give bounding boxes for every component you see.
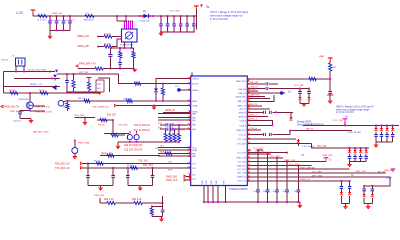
ground	[152, 105, 156, 110]
svg-text:USB_DM: USB_DM	[249, 82, 258, 84]
tvs D11	[348, 148, 352, 162]
series caps row1	[158, 123, 191, 127]
svg-text:PWR_KEY 10K: PWR_KEY 10K	[10, 111, 25, 113]
label 1v	[329, 158, 332, 161]
net label row	[30, 111, 52, 113]
capacitor C17	[86, 164, 90, 186]
svg-text:PWR_GND: PWR_GND	[94, 195, 105, 197]
junction	[162, 83, 164, 85]
svg-text:FB1 600R: FB1 600R	[84, 20, 94, 22]
resistor R7	[132, 48, 135, 69]
wire box	[98, 78, 110, 92]
svg-text:104: 104	[273, 191, 276, 193]
svg-text:PA3: PA3	[192, 124, 195, 127]
wire vdda	[163, 112, 191, 114]
junction	[29, 92, 31, 94]
svg-text:SDA1: SDA1	[192, 149, 197, 152]
wire spkn	[247, 118, 272, 125]
wire rail p1	[341, 203, 349, 205]
wire	[160, 32, 162, 33]
wire r177	[247, 174, 390, 178]
resistor R28	[63, 101, 69, 111]
power flag VIN	[31, 10, 36, 16]
net label SWD_CLK	[166, 179, 191, 182]
svg-text:NRST: NRST	[192, 101, 198, 103]
svg-text:RESET_1.8: RESET_1.8	[30, 84, 42, 86]
resistor R22	[107, 201, 116, 204]
wire	[100, 155, 160, 157]
net label VCC_RF	[317, 146, 327, 148]
diode D4 red	[283, 112, 294, 120]
svg-text:GSM_ANT: GSM_ANT	[384, 169, 395, 172]
svg-text:PWR_INT 10K: PWR_INT 10K	[35, 106, 50, 108]
wire	[329, 71, 331, 91]
wire	[112, 36, 122, 37]
diode D2	[53, 75, 57, 81]
svg-text:PWR_DET: PWR_DET	[322, 155, 333, 157]
wire	[247, 108, 270, 110]
svg-text:104: 104	[294, 191, 297, 193]
svg-text:104: 104	[283, 191, 286, 193]
ground	[374, 142, 378, 148]
wire reset	[4, 86, 61, 88]
wire cap bank bottom	[50, 30, 70, 32]
net label row	[34, 106, 50, 109]
svg-text:PB_IN: PB_IN	[98, 125, 105, 127]
svg-text:C15 104 C16 104: C15 104 C16 104	[124, 150, 143, 152]
power flag 3V3	[194, 6, 199, 16]
svg-text:RST_3V3: RST_3V3	[79, 72, 89, 74]
svg-text:PWR_KEY: PWR_KEY	[300, 167, 311, 169]
tvs D9	[385, 125, 389, 142]
wire vert q	[74, 140, 76, 148]
wire r169	[247, 167, 349, 170]
diode D3	[154, 82, 158, 100]
svg-text:BAT_ADC 100K: BAT_ADC 100K	[33, 130, 49, 133]
diode D2b	[55, 70, 58, 73]
ground	[48, 36, 52, 39]
resistor R27	[134, 82, 141, 85]
wire oscout	[14, 78, 60, 80]
svg-text:SWD_CLK: SWD_CLK	[166, 179, 178, 182]
resistor R3	[9, 90, 18, 95]
junction	[49, 15, 71, 17]
svg-text:PWR_CON: PWR_CON	[284, 160, 296, 162]
resistor R21	[107, 154, 114, 157]
capacitor C3	[62, 16, 69, 30]
capacitor bank C10	[179, 16, 183, 32]
wire up	[162, 196, 164, 203]
label X1	[1, 56, 15, 62]
tvs D8	[380, 125, 384, 142]
wire railB	[350, 161, 367, 163]
wire q legs low	[130, 141, 137, 142]
power flag	[343, 119, 348, 127]
ground	[159, 33, 163, 36]
svg-text:VSS: VSS	[216, 180, 218, 185]
wire osc loop	[3, 72, 5, 94]
wire spkp	[247, 115, 268, 118]
svg-text:VCC_EXT: VCC_EXT	[270, 156, 281, 158]
wire r165	[247, 164, 311, 167]
resistor R14	[111, 134, 125, 137]
mcu right pin numbers	[248, 80, 250, 182]
net label TXD_MCU	[55, 167, 83, 171]
wire	[142, 202, 163, 204]
net label VDDA	[165, 109, 175, 112]
wire bridge2 rail	[128, 184, 153, 186]
resistor R2	[104, 44, 112, 49]
label 3.2V	[386, 176, 392, 180]
svg-text:VREG_EN: VREG_EN	[77, 35, 89, 38]
wire	[247, 95, 274, 102]
svg-text:PWR_STAT: PWR_STAT	[78, 142, 90, 145]
wire	[74, 154, 76, 157]
svg-text:PWR_LVL: PWR_LVL	[237, 177, 246, 179]
svg-text:VBAT_MCU: VBAT_MCU	[236, 80, 247, 83]
ground	[328, 101, 332, 104]
net label	[0, 0, 1, 1]
svg-text:COM_A: COM_A	[249, 127, 257, 130]
net label	[356, 171, 366, 173]
label 0v	[345, 116, 348, 119]
net label	[78, 142, 90, 145]
series caps spk	[247, 111, 282, 114]
svg-text:TXD_LED: TXD_LED	[118, 125, 128, 127]
label D1	[140, 11, 150, 23]
svg-text:RX 1.8: RX 1.8	[127, 165, 134, 167]
mcu bottom pin names	[202, 180, 226, 185]
diode D5 red	[297, 139, 300, 146]
label U2	[120, 45, 134, 47]
net label	[132, 199, 142, 201]
resistor R25	[329, 63, 337, 71]
net label SWD_DIO	[166, 175, 191, 178]
svg-text:VCC_3V3: VCC_3V3	[238, 162, 246, 164]
svg-text:PWM_OUT: PWM_OUT	[236, 130, 247, 132]
diode D1	[142, 14, 151, 18]
wire r173	[247, 171, 385, 174]
wire pwrkey	[325, 147, 369, 149]
note text3	[336, 106, 374, 115]
junctions	[349, 147, 367, 149]
wire	[247, 152, 287, 154]
svg-text:7V: 7V	[301, 154, 304, 157]
svg-text:R4 1K: R4 1K	[39, 90, 45, 92]
pin wires U2 top	[124, 21, 133, 29]
capacitor C18	[111, 168, 115, 186]
capacitor bank C12	[192, 16, 196, 32]
svg-text:TX0_3V3: TX0_3V3	[138, 161, 148, 163]
junctions	[110, 68, 135, 70]
net label right	[322, 155, 333, 157]
svg-text:VCC_RTC: VCC_RTC	[305, 124, 316, 126]
wire bridge1 rail	[88, 184, 113, 186]
resistor R29	[78, 98, 91, 102]
power flag R9	[87, 78, 92, 81]
svg-text:LED_CTL: LED_CTL	[238, 181, 246, 183]
wire mosfet drain	[20, 109, 31, 112]
series cap usb1	[266, 82, 278, 85]
svg-text:VCC_3V3: VCC_3V3	[289, 164, 300, 166]
label U1 partno	[229, 189, 248, 191]
resistor R24	[150, 206, 153, 216]
wire row	[158, 155, 191, 157]
tvs D14	[364, 148, 368, 162]
svg-text:R30 10K: R30 10K	[124, 99, 132, 101]
resistor R1	[104, 34, 112, 39]
ground	[97, 92, 101, 95]
ground	[347, 162, 351, 168]
net label TAG	[306, 128, 314, 131]
mosfet Q3	[127, 135, 132, 140]
net label rows3	[124, 145, 143, 147]
mosfet Q4	[134, 135, 139, 140]
svg-text:VSS: VSS	[202, 180, 204, 185]
capacitor bank C9	[172, 16, 176, 32]
svg-text:1.2V: 1.2V	[16, 11, 24, 15]
wire row	[158, 119, 191, 121]
label 3v	[351, 174, 354, 177]
wire railA	[376, 141, 393, 143]
svg-text:BOOT1: BOOT1	[240, 109, 246, 111]
wire bottom rail	[160, 31, 195, 33]
capacitor bank C7	[159, 16, 163, 32]
svg-text:R13 105: R13 105	[107, 114, 116, 116]
tvs D12	[353, 148, 357, 162]
mcu left pin names	[192, 79, 199, 181]
svg-text:USB_DM: USB_DM	[238, 89, 246, 91]
resistor R26	[309, 77, 317, 80]
net label VCC	[170, 11, 180, 13]
svg-text:R19 4K7 R20 4K7: R19 4K7 R20 4K7	[124, 145, 143, 147]
svg-text:in 3V to 4.2V DC: in 3V to 4.2V DC	[336, 111, 354, 114]
svg-text:PA0: PA0	[192, 113, 195, 116]
wire	[247, 94, 265, 98]
svg-text:PA6: PA6	[192, 155, 195, 158]
svg-text:SS14 40V: SS14 40V	[140, 21, 150, 23]
svg-text:VSSA: VSSA	[192, 105, 198, 108]
net label PWR_LED	[101, 154, 112, 156]
wire	[247, 124, 273, 126]
svg-text:MODE: MODE	[249, 89, 256, 91]
wire comb	[247, 138, 296, 140]
svg-text:1M: 1M	[63, 107, 66, 109]
resistor R23	[134, 201, 143, 204]
net label	[247, 104, 262, 107]
wire	[112, 38, 122, 46]
label 3V	[200, 5, 210, 10]
wire	[115, 202, 134, 204]
junctions	[203, 201, 299, 203]
wire i2c2	[158, 149, 191, 153]
capacitor pair1b	[348, 181, 352, 204]
inductor L1	[37, 13, 63, 21]
svg-text:VSS: VSS	[224, 180, 226, 185]
svg-text:PWR_LVL: PWR_LVL	[300, 179, 311, 181]
label 7V	[301, 154, 304, 157]
pullup bank	[164, 124, 181, 142]
crystal X1	[16, 58, 26, 66]
wire r89	[247, 89, 258, 92]
svg-text:STM32F103CBT6: STM32F103CBT6	[229, 189, 248, 191]
svg-text:OSC32: OSC32	[1, 60, 9, 62]
junctions	[160, 15, 195, 17]
wire r83	[247, 82, 265, 85]
wire	[75, 117, 96, 119]
net label rows	[134, 125, 150, 127]
svg-text:R15 1K R16 1K: R15 1K R16 1K	[134, 125, 150, 127]
wire bias	[4, 92, 101, 94]
wire	[97, 119, 113, 121]
wire vccio	[247, 148, 264, 151]
ground	[116, 142, 120, 149]
svg-text:TK0 1.8: TK0 1.8	[78, 98, 86, 100]
wire pwm	[247, 143, 311, 145]
svg-text:Q1 AO3401: Q1 AO3401	[18, 98, 30, 101]
ground	[98, 185, 102, 191]
net label OSC_IN	[27, 70, 51, 73]
svg-text:DIO: DIO	[192, 175, 196, 177]
svg-text:PA5: PA5	[192, 152, 195, 155]
resistor R31	[94, 161, 104, 166]
svg-text:PA4: PA4	[192, 128, 195, 131]
wire	[296, 88, 310, 90]
wire bottom rail	[204, 201, 300, 203]
junctions	[341, 180, 351, 182]
svg-text:3v: 3v	[206, 5, 210, 9]
ground	[73, 157, 77, 160]
wire	[104, 132, 129, 134]
transistor Q1	[52, 85, 56, 90]
svg-text:VCC_IO: VCC_IO	[239, 135, 247, 137]
svg-text:VDDA_IN: VDDA_IN	[165, 109, 175, 112]
wire uart rx	[155, 167, 191, 172]
wire rx0	[83, 167, 191, 169]
mcu pin1 tick	[191, 73, 193, 77]
wire r154	[247, 151, 273, 155]
svg-text:VSS: VSS	[211, 180, 213, 185]
svg-text:CHG_DET: CHG_DET	[74, 115, 85, 117]
capacitor C4	[68, 16, 75, 30]
net label PWR_3V3	[76, 63, 97, 68]
svg-text:PWR_BAT 4.7K: PWR_BAT 4.7K	[79, 63, 96, 66]
net label	[118, 125, 128, 127]
junction	[139, 15, 154, 17]
svg-text:PWR_1V2: PWR_1V2	[52, 13, 63, 15]
svg-text:R2 10K: R2 10K	[104, 44, 112, 46]
capacitor C22	[263, 154, 269, 202]
wire	[98, 36, 104, 38]
mosfet Q2	[18, 98, 34, 109]
capacitor C2	[55, 16, 62, 30]
resistor R30	[124, 99, 133, 103]
svg-text:COM_B: COM_B	[239, 125, 246, 127]
mcu right pin names	[236, 80, 247, 183]
wire	[247, 92, 285, 94]
wire U2 vdd	[117, 15, 127, 21]
wire row	[158, 152, 191, 155]
mcu left pin marks	[189, 78, 191, 179]
junctions	[375, 125, 393, 127]
wire	[20, 119, 31, 121]
svg-text:UART_RX: UART_RX	[237, 100, 247, 103]
wire	[100, 198, 107, 203]
regulator U2	[122, 29, 138, 42]
wire rail	[151, 206, 163, 208]
svg-text:RX1: RX1	[192, 168, 196, 170]
svg-text:SWDIO: SWDIO	[192, 90, 199, 92]
label 3.3V	[309, 166, 315, 170]
wire	[258, 149, 263, 151]
wire row	[158, 117, 191, 119]
wire vrtc	[303, 124, 399, 126]
ground	[366, 204, 370, 210]
svg-text:TXD_MCU 1K: TXD_MCU 1K	[55, 168, 70, 170]
svg-text:NET_STA: NET_STA	[312, 174, 322, 177]
label rating	[302, 145, 316, 148]
svg-text:SPK_N: SPK_N	[250, 118, 258, 120]
wire rail92	[66, 91, 99, 93]
svg-text:PWR_CON: PWR_CON	[236, 157, 246, 159]
wire vss pin5	[225, 186, 227, 203]
net label rows r1	[247, 96, 270, 100]
wire r181	[247, 179, 349, 182]
wire bank stub	[195, 16, 197, 30]
svg-text:SPK_P: SPK_P	[250, 115, 258, 117]
svg-text:C10 104: C10 104	[13, 121, 21, 123]
wire 3v3	[78, 68, 95, 70]
wire tx0	[83, 163, 191, 165]
label 2v	[288, 90, 292, 94]
svg-text:R3 1M: R3 1M	[9, 90, 15, 92]
capacitor C29	[307, 89, 311, 104]
wire boot0	[118, 74, 190, 84]
tvs D10	[391, 125, 395, 142]
svg-text:TAG 3V: TAG 3V	[306, 128, 314, 131]
transistor Q6	[58, 101, 67, 107]
svg-text:PULL RESET(1): PULL RESET(1)	[93, 106, 109, 108]
net label PWR_SW	[1, 105, 25, 113]
ground	[343, 204, 347, 210]
svg-text:VCC_AUX: VCC_AUX	[237, 142, 247, 145]
svg-text:COM_A: COM_A	[239, 119, 246, 122]
net label BAT_ADC	[33, 130, 49, 133]
wire	[98, 46, 104, 48]
svg-text:OSC32_IN 32.768K: OSC32_IN 32.768K	[27, 70, 47, 72]
net label VCC_1V8	[333, 120, 344, 122]
junction	[112, 119, 114, 121]
capacitor pair2a	[362, 186, 366, 204]
svg-text:104: 104	[263, 191, 266, 193]
capacitor C20	[161, 206, 165, 216]
mcu U1 body	[191, 76, 248, 186]
mcu right pin marks	[247, 80, 249, 181]
net label	[98, 125, 105, 127]
series cap usb2	[266, 84, 304, 90]
ground	[133, 69, 137, 72]
wire drain rail	[118, 141, 180, 143]
svg-text:L1 2.2uH: L1 2.2uH	[37, 20, 46, 22]
svg-text:BOOT0: BOOT0	[192, 84, 198, 86]
svg-text:USB_DP: USB_DP	[238, 93, 246, 95]
capacitor pair1a	[340, 181, 344, 204]
ferrite FB1	[84, 13, 94, 22]
capacitor C27 pol	[327, 92, 333, 101]
junction	[116, 15, 118, 17]
wire	[247, 87, 265, 90]
wire	[311, 143, 325, 148]
